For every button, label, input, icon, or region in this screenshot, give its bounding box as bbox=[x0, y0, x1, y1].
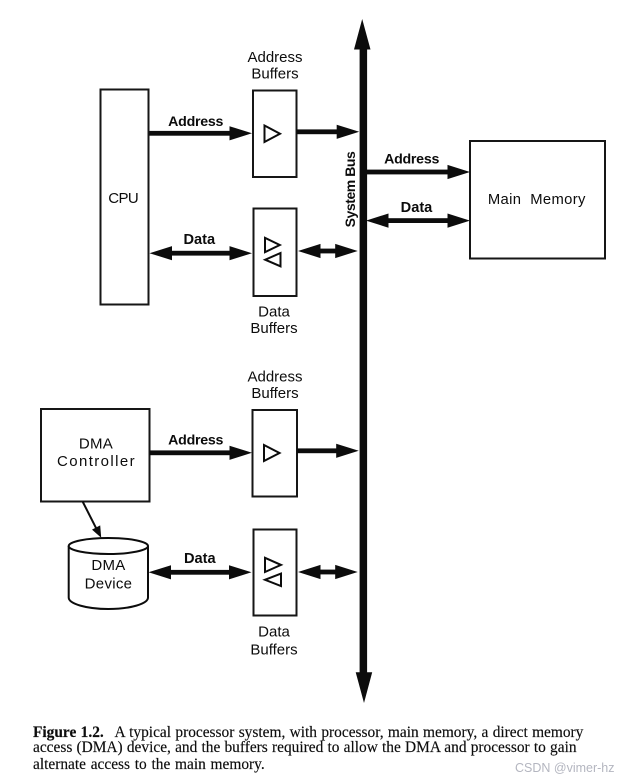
wire: data buffers to bus arrow (lower, bidirectional) bbox=[298, 565, 358, 579]
label: Address (bus-memory) bbox=[384, 152, 439, 168]
svg-text:Main Memory: Main Memory bbox=[488, 192, 586, 208]
wire: bus to memory address arrow bbox=[367, 165, 470, 179]
label: Address (CPU arrow) bbox=[168, 114, 223, 130]
system bus top arrowhead bbox=[354, 19, 371, 50]
label: Address Buffers (lower) bbox=[247, 368, 302, 402]
buffer triangles (lower data, bidirectional) bbox=[265, 558, 281, 586]
svg-text:Buffers: Buffers bbox=[250, 642, 297, 659]
buffer triangle (lower address) bbox=[264, 445, 280, 461]
wire: DMA device data arrow (bidirectional) bbox=[149, 565, 252, 579]
data buffers box (lower) bbox=[254, 530, 297, 616]
svg-text:Data: Data bbox=[401, 200, 434, 216]
wire: data buffers to bus arrow (top, bidirectional) bbox=[298, 244, 358, 258]
data buffers box (top) bbox=[254, 209, 297, 297]
label: Data Buffers (top) bbox=[250, 303, 297, 337]
system bus vertical line bbox=[360, 46, 368, 674]
svg-text:CPU: CPU bbox=[108, 190, 138, 207]
svg-text:Address: Address bbox=[247, 49, 302, 66]
wire: DMA controller to DMA device arrow bbox=[83, 502, 102, 538]
label: Data Buffers (lower) bbox=[250, 623, 297, 658]
svg-text:Data: Data bbox=[258, 623, 290, 640]
system bus bottom arrowhead bbox=[356, 672, 373, 703]
svg-text:Address: Address bbox=[168, 432, 223, 448]
CPU label bbox=[108, 190, 138, 207]
wire: address buffers to bus arrow (top) bbox=[297, 125, 360, 139]
label: System Bus (rotated) bbox=[342, 151, 358, 227]
caption line 2 bbox=[33, 740, 577, 755]
svg-text:Buffers: Buffers bbox=[251, 66, 298, 83]
caption line 3 bbox=[33, 757, 265, 772]
label: Data (CPU arrow) bbox=[183, 232, 216, 248]
svg-text:DMA: DMA bbox=[91, 557, 125, 574]
buffer triangles (top data, bidirectional) bbox=[265, 238, 281, 266]
CPU box bbox=[101, 90, 149, 305]
svg-text:Data: Data bbox=[258, 303, 290, 320]
DMA Device label bbox=[85, 557, 133, 592]
wire: address buffers to bus arrow (lower) bbox=[297, 444, 359, 458]
label: Data (DMA device arrow) bbox=[184, 551, 217, 567]
caption line 1 bbox=[33, 725, 583, 740]
svg-text:Data: Data bbox=[184, 551, 217, 567]
wire: DMA controller address arrow bbox=[150, 446, 253, 460]
DMA Device cylinder bbox=[69, 538, 148, 609]
label: Address (DMA arrow) bbox=[168, 432, 223, 448]
wire: CPU data arrow (bidirectional) bbox=[150, 246, 253, 260]
label: Data (bus-memory) bbox=[401, 200, 434, 216]
Main Memory box bbox=[470, 141, 605, 259]
wire: CPU address arrow bbox=[150, 126, 253, 140]
svg-text:Address: Address bbox=[168, 114, 223, 130]
address buffers box (top) bbox=[253, 91, 297, 178]
svg-text:Buffers: Buffers bbox=[250, 320, 297, 337]
DMA Controller label bbox=[57, 435, 136, 470]
svg-text:DMA: DMA bbox=[79, 435, 113, 452]
DMA Controller box bbox=[41, 409, 150, 502]
svg-text:Data: Data bbox=[183, 232, 216, 248]
label: Address Buffers (top) bbox=[247, 49, 302, 83]
svg-text:Device: Device bbox=[85, 575, 133, 592]
svg-text:Controller: Controller bbox=[57, 453, 136, 470]
watermark bbox=[515, 761, 615, 775]
buffer triangle (top address) bbox=[265, 126, 281, 143]
address buffers box (lower) bbox=[253, 410, 298, 497]
svg-text:Buffers: Buffers bbox=[251, 385, 298, 402]
wire: bus to memory data arrow (bidirectional) bbox=[366, 214, 470, 228]
Main Memory label bbox=[488, 192, 586, 208]
svg-text:Address: Address bbox=[247, 368, 302, 385]
svg-text:Address: Address bbox=[384, 152, 439, 168]
svg-text:System Bus: System Bus bbox=[342, 151, 358, 227]
